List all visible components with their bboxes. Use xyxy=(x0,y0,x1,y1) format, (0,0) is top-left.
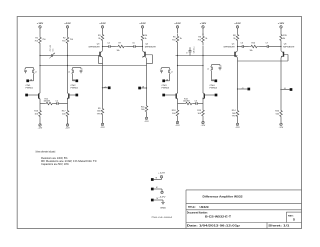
wire xyxy=(103,46,143,48)
svg-text:PWR02: PWR02 xyxy=(71,88,79,90)
wire bus3 xyxy=(238,55,289,62)
svg-text:x2: x2 xyxy=(35,72,37,74)
power -12V port xyxy=(279,119,284,129)
svg-text:Resistors are 1/4W, 5%: Resistors are 1/4W, 5% xyxy=(41,157,67,160)
svg-text:750: 750 xyxy=(70,39,74,41)
svg-text:UE329: UE329 xyxy=(200,206,210,209)
svg-text:-12V: -12V xyxy=(175,125,180,127)
resistor R17 100 xyxy=(62,108,69,119)
power -12V port xyxy=(65,119,70,130)
power +12V P2 xyxy=(64,23,71,29)
svg-text:750: 750 xyxy=(35,40,39,42)
svg-text:C: C xyxy=(221,66,223,68)
svg-text:D: D xyxy=(293,217,295,221)
wire xyxy=(237,89,239,108)
wire xyxy=(237,30,239,34)
wire xyxy=(177,45,179,56)
svg-text:R15: R15 xyxy=(283,35,288,37)
note line 2 xyxy=(41,157,67,160)
power +12V P4 xyxy=(139,23,146,29)
resistor R5 3k xyxy=(172,34,182,46)
wire xyxy=(39,30,41,36)
power +12V P5 xyxy=(174,23,181,29)
svg-text:trim: trim xyxy=(52,48,55,51)
node N1-left xyxy=(102,46,103,47)
wire bus2-mid xyxy=(178,65,204,67)
transistor Q7 xyxy=(39,93,41,100)
power +12V P7 xyxy=(234,23,241,29)
transistor Q3 MPS8599 xyxy=(89,44,103,64)
svg-text:750: 750 xyxy=(198,39,202,41)
capacitor C4 xyxy=(107,42,110,48)
wire xyxy=(280,30,282,34)
module CN3 PWR03 xyxy=(160,68,173,90)
pad CN1-B xyxy=(25,94,38,97)
svg-text:+12V: +12V xyxy=(278,23,285,25)
svg-text:100: 100 xyxy=(172,113,176,115)
title block frame xyxy=(186,190,302,229)
svg-text:GND: GND xyxy=(160,207,167,209)
note line 3 xyxy=(41,160,97,163)
svg-text:M: M xyxy=(156,187,158,189)
svg-text:C: C xyxy=(82,69,84,71)
svg-text:MPS8599: MPS8599 xyxy=(89,47,100,49)
power -12V port xyxy=(201,119,206,128)
wire xyxy=(202,99,204,108)
transistor Q6 MPS8599 xyxy=(281,44,294,58)
power +12V P6 xyxy=(200,23,207,29)
node bus2m-R6 xyxy=(202,65,203,66)
svg-text:R8: R8 xyxy=(233,35,237,37)
svg-text:R6: R6 xyxy=(198,37,202,39)
svg-text:x2: x2 xyxy=(207,69,209,71)
svg-text:x2: x2 xyxy=(68,72,70,74)
node mid-out xyxy=(146,87,147,88)
power -12V port xyxy=(100,117,105,129)
resistor R20 56k xyxy=(275,108,282,119)
svg-text:+12V: +12V xyxy=(234,23,241,25)
svg-text:Unless otherwise indicated:: Unless otherwise indicated: xyxy=(35,151,55,154)
svg-text:3k: 3k xyxy=(145,38,147,40)
wire xyxy=(177,99,179,108)
svg-text:Capacitors are 50V, 10%: Capacitors are 50V, 10% xyxy=(41,163,69,166)
border frame xyxy=(17,17,301,229)
pad J1-1 +12V xyxy=(151,177,162,180)
resistor R3 3k xyxy=(98,33,104,42)
wire xyxy=(102,42,104,51)
module CN2 PWR02 xyxy=(68,68,83,90)
wire xyxy=(177,56,179,66)
wire xyxy=(39,66,41,94)
resistor R2 750 xyxy=(62,35,74,46)
wire bus2 xyxy=(40,65,147,67)
svg-text:Sheet: 1/1: Sheet: 1/1 xyxy=(268,225,290,228)
svg-text:C: C xyxy=(24,69,26,71)
wire xyxy=(178,103,204,105)
svg-text:R9: R9 xyxy=(98,108,102,110)
pad CN4-M xyxy=(212,79,218,82)
resistor R6 750 xyxy=(198,34,208,46)
drawing number text xyxy=(151,217,173,219)
module CN4 PWR04 xyxy=(207,65,222,90)
resistor R19 100 xyxy=(197,108,204,119)
node bus2-R2 xyxy=(67,65,68,66)
wire xyxy=(67,46,69,56)
wire xyxy=(202,30,204,36)
svg-text:3k: 3k xyxy=(205,38,207,40)
wire xyxy=(202,66,204,94)
svg-text:+12V: +12V xyxy=(158,172,166,174)
pad J1-3 GND xyxy=(151,198,163,201)
svg-text:R16: R16 xyxy=(34,111,39,113)
power +12V P1 xyxy=(37,23,44,29)
svg-text:-12V: -12V xyxy=(201,125,206,127)
svg-text:R20: R20 xyxy=(275,111,280,113)
resistor R8 3k xyxy=(233,33,239,42)
svg-text:100: 100 xyxy=(35,113,39,115)
power +12V P8 xyxy=(278,23,285,29)
wire xyxy=(237,58,239,89)
resistor R12 10k xyxy=(44,98,54,104)
capacitor C2 xyxy=(56,101,59,105)
svg-text:56k: 56k xyxy=(141,109,145,111)
pad CN4-B xyxy=(205,94,218,97)
svg-text:PWR04: PWR04 xyxy=(210,88,218,90)
wire xyxy=(40,103,68,105)
svg-text:R7: R7 xyxy=(119,42,122,44)
svg-text:TP1: TP1 xyxy=(97,113,102,115)
transistor Q5 MPS8599 xyxy=(224,44,238,58)
svg-text:+12V: +12V xyxy=(64,23,71,25)
note line 4 xyxy=(41,163,69,166)
node bus1-R1 xyxy=(39,55,40,56)
title text xyxy=(203,195,243,199)
date row xyxy=(187,225,291,228)
power -12V port J1 xyxy=(159,189,167,198)
transistor Q10 xyxy=(202,93,204,100)
svg-text:10k: 10k xyxy=(117,50,120,52)
svg-text:-12V: -12V xyxy=(279,127,284,129)
power +12V P3 xyxy=(99,23,106,29)
svg-text:PWR01: PWR01 xyxy=(26,88,34,90)
svg-text:+12V: +12V xyxy=(99,23,106,25)
capacitor C5 xyxy=(132,42,135,48)
wire xyxy=(177,66,179,94)
svg-text:R19: R19 xyxy=(197,110,202,112)
svg-text:750: 750 xyxy=(62,40,66,42)
wire xyxy=(39,46,41,56)
wire xyxy=(67,66,69,94)
svg-text:+12V: +12V xyxy=(174,23,181,25)
wire xyxy=(67,99,69,108)
wire xyxy=(280,58,282,90)
power -12V port xyxy=(175,119,180,128)
svg-text:-M: -M xyxy=(142,87,145,89)
trimmer capacitor C1 xyxy=(49,45,54,59)
wire xyxy=(102,58,104,88)
svg-text:+12V: +12V xyxy=(139,23,146,25)
svg-text:R5: R5 xyxy=(173,37,177,39)
wire xyxy=(238,46,282,48)
svg-text:B: B xyxy=(186,52,188,53)
svg-text:C: C xyxy=(160,69,162,71)
pad -C xyxy=(238,87,250,90)
wire xyxy=(102,88,104,106)
power -12V port xyxy=(235,119,240,129)
svg-text:R10: R10 xyxy=(252,42,257,44)
resistor R1 750 xyxy=(35,35,47,46)
svg-text:+12V: +12V xyxy=(37,23,44,25)
svg-text:56k: 56k xyxy=(276,113,280,115)
svg-text:-12V: -12V xyxy=(38,128,43,130)
svg-text:-12V: -12V xyxy=(159,196,167,198)
capacitor C3 xyxy=(195,101,198,105)
resistor R18 100 xyxy=(172,108,179,119)
svg-text:Q4: Q4 xyxy=(145,44,149,46)
power +12V port xyxy=(158,172,166,179)
node L1-R6 xyxy=(202,55,203,56)
svg-text:+12V: +12V xyxy=(200,23,207,25)
svg-text:C6: C6 xyxy=(241,42,244,44)
pad CN2-B xyxy=(69,94,78,97)
transistor Q9 xyxy=(176,93,178,100)
svg-text:Q6: Q6 xyxy=(284,44,288,46)
svg-text:R1: R1 xyxy=(35,38,39,40)
svg-text:Difference Amplifier W532: Difference Amplifier W532 xyxy=(203,195,243,199)
svg-text:TITLE:: TITLE: xyxy=(188,206,196,209)
pad CN3-B xyxy=(162,94,175,97)
pad CN1-M xyxy=(26,79,33,82)
capacitor C6 xyxy=(241,42,244,48)
document number row xyxy=(187,211,232,218)
svg-text:Q3: Q3 xyxy=(97,44,100,46)
wire xyxy=(102,30,104,34)
svg-text:B-CS-W532-E-T: B-CS-W532-E-T xyxy=(205,215,232,218)
svg-text:MPS8599: MPS8599 xyxy=(283,47,294,49)
svg-text:-12V: -12V xyxy=(235,127,240,129)
node bus1-R2 xyxy=(67,55,68,56)
svg-text:RF Resistors are 1/4W, 1% Meta: RF Resistors are 1/4W, 1% Metal Film T0 xyxy=(41,160,97,163)
svg-text:3k: 3k xyxy=(180,38,182,40)
node bus2m-R5 xyxy=(177,65,178,66)
svg-text:3k: 3k xyxy=(283,38,285,40)
svg-text:56k: 56k xyxy=(232,113,236,115)
resistor R13 10k xyxy=(183,98,193,104)
svg-text:C1 5-25: C1 5-25 xyxy=(50,45,52,51)
svg-text:C7: C7 xyxy=(266,42,269,44)
svg-text:M: M xyxy=(156,177,158,179)
svg-text:C4: C4 xyxy=(107,42,110,44)
resistor R10 10k xyxy=(249,42,260,52)
node out-left xyxy=(102,87,103,88)
svg-text:R2: R2 xyxy=(63,38,67,40)
resistor R7 10k xyxy=(116,42,127,52)
wire xyxy=(280,90,282,109)
svg-text:Q5: Q5 xyxy=(232,44,235,46)
svg-text:-12V: -12V xyxy=(100,127,105,129)
svg-text:Date: 1/04/2013 06:12:01p: Date: 1/04/2013 06:12:01p xyxy=(187,225,241,228)
pad -M mid xyxy=(138,87,146,90)
resistor R16 100 xyxy=(34,108,41,119)
svg-text:PWR03: PWR03 xyxy=(162,88,170,90)
svg-text:-12V: -12V xyxy=(144,121,149,123)
svg-text:C5: C5 xyxy=(132,42,135,44)
wire xyxy=(67,30,69,36)
svg-text:10k/4W: 10k/4W xyxy=(44,101,51,103)
node N3-right xyxy=(280,46,281,47)
pad -E xyxy=(282,88,293,91)
resistor R14 56k xyxy=(232,108,239,119)
module CN1 PWR01 xyxy=(24,68,37,90)
svg-text:MPS8599: MPS8599 xyxy=(145,47,156,49)
wire xyxy=(146,88,148,104)
wire xyxy=(280,42,282,51)
wire xyxy=(142,42,144,51)
wire xyxy=(39,99,41,108)
rev box xyxy=(288,215,295,221)
node N3-left xyxy=(237,46,238,47)
title row xyxy=(188,206,209,209)
transistor Q8 xyxy=(67,93,69,100)
wire xyxy=(146,66,148,89)
resistor R4 3k xyxy=(141,33,148,42)
node out2-right xyxy=(280,89,281,90)
power -12V port xyxy=(144,114,149,123)
svg-text:750: 750 xyxy=(172,39,176,41)
svg-text:R14: R14 xyxy=(232,110,237,112)
power -12V port xyxy=(38,119,43,130)
svg-text:56k: 56k xyxy=(97,111,101,113)
svg-text:R17: R17 xyxy=(62,111,67,113)
svg-text:100: 100 xyxy=(62,113,66,115)
wire xyxy=(177,30,179,34)
svg-text:R18: R18 xyxy=(172,110,177,112)
svg-text:R3: R3 xyxy=(98,35,102,37)
wire L1 xyxy=(176,55,238,57)
pad J1-2 -12V xyxy=(151,187,162,190)
svg-text:750-04-0004: 750-04-0004 xyxy=(151,217,173,219)
wire xyxy=(39,56,41,66)
resistor R15 3k xyxy=(280,33,288,42)
ground xyxy=(160,200,167,209)
svg-text:-12V: -12V xyxy=(65,128,70,130)
wire xyxy=(142,30,144,34)
resistor R9 56k xyxy=(97,106,104,117)
resistor R11 56k xyxy=(141,104,148,114)
pad TP-C xyxy=(103,86,111,89)
pad CN3-M xyxy=(162,79,169,82)
svg-text:C8 0.1u: C8 0.1u xyxy=(194,47,196,54)
svg-text:100: 100 xyxy=(198,113,202,115)
wire xyxy=(67,56,69,66)
svg-text:MPS8599: MPS8599 xyxy=(224,47,235,49)
note line 1 xyxy=(35,151,55,154)
svg-text:Document Number:: Document Number: xyxy=(187,211,208,214)
capacitor C7 xyxy=(266,42,269,48)
pad CN2-M xyxy=(73,79,79,82)
node out2-left xyxy=(237,88,238,89)
wire xyxy=(237,42,239,51)
capacitor C8 xyxy=(186,47,195,56)
svg-text:R4: R4 xyxy=(145,35,149,37)
wire xyxy=(202,46,204,66)
transistor Q4 MPS8599 xyxy=(143,44,156,66)
node bus2-R1 xyxy=(39,65,40,66)
svg-text:TP2: TP2 xyxy=(232,116,237,118)
svg-text:x2: x2 xyxy=(171,72,173,74)
svg-text:10k/4W: 10k/4W xyxy=(183,101,190,103)
node L1-R5 xyxy=(177,55,178,56)
node N1-right xyxy=(142,46,143,47)
wire bus1 xyxy=(40,55,100,57)
svg-text:10k: 10k xyxy=(250,50,253,52)
svg-text:750: 750 xyxy=(42,39,46,41)
